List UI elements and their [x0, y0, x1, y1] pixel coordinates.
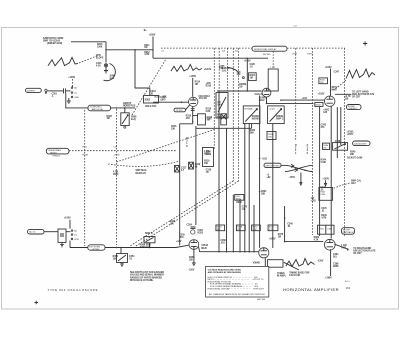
capacitor C316 box — [193, 114, 213, 125]
svg-text:A67 363: A67 363 — [257, 298, 265, 301]
svg-text:1M: 1M — [278, 236, 281, 238]
title horizontal amplifier — [283, 287, 339, 292]
label sweep cal — [222, 68, 231, 73]
svg-text:+PUR: +PUR — [292, 53, 298, 55]
switch EXT HORIZ box — [88, 245, 105, 251]
svg-text:HOLD OFF: HOLD OFF — [145, 106, 157, 108]
switch column dashed 5 — [312, 48, 314, 235]
svg-text:R361: R361 — [319, 228, 325, 230]
svg-text:.0047: .0047 — [160, 99, 166, 102]
resistor box R366 — [216, 225, 225, 231]
footer type 503 — [48, 288, 98, 292]
resistor R311 label — [144, 45, 150, 49]
svg-text:+ABC: +ABC — [323, 108, 330, 111]
svg-text:AND OBTAINED AT MIN READING: AND OBTAINED AT MIN READING — [208, 271, 242, 274]
switch column dashed 3 — [238, 48, 240, 181]
dashed diagonal mag switch right — [136, 181, 239, 246]
C347 label — [334, 70, 340, 73]
top right cross mark — [363, 41, 367, 45]
C364 label — [333, 253, 339, 259]
node -150V mid — [289, 173, 302, 186]
wire +100V lead — [152, 36, 154, 58]
svg-text:15K: 15K — [320, 82, 324, 84]
svg-text:OF CRT: OF CRT — [352, 96, 361, 98]
wire V354 cathode down — [193, 249, 195, 263]
wire cathode bus lower — [199, 247, 259, 252]
svg-text:CAL ADJUST: CAL ADJUST — [354, 142, 367, 145]
revision tag — [345, 280, 350, 283]
adjust note — [347, 157, 363, 160]
potentiometer R324 vernier — [268, 106, 285, 124]
tube V364B amplifier — [259, 248, 269, 258]
svg-text:VALUES AND SERIAL NUMBER: VALUES AND SERIAL NUMBER — [130, 274, 164, 277]
resistor R305B label — [239, 84, 246, 88]
svg-text:ALL READINGS TAKEN WITH NO SIG: ALL READINGS TAKEN WITH NO SIGNAL INPUT … — [209, 293, 266, 296]
svg-text:C347: C347 — [334, 70, 340, 73]
potentiometer R364 vernier — [113, 248, 136, 267]
wire right rail 3 — [336, 107, 338, 158]
svg-text:(DELAY): (DELAY) — [349, 107, 357, 110]
waveform note — [289, 271, 309, 277]
junction dots rail — [259, 158, 261, 160]
note swp cal adj — [333, 179, 362, 188]
svg-text:+162V: +162V — [269, 239, 276, 241]
node +290V — [325, 278, 333, 280]
svg-text:DC: DC — [74, 92, 77, 94]
resistor R336 box — [323, 141, 341, 150]
junction dots row — [105, 49, 107, 51]
svg-text:NOR: NOR — [145, 233, 150, 235]
svg-text:AMPL/XCAL: AMPL/XCAL — [92, 108, 104, 111]
svg-text:R309: R309 — [113, 174, 119, 176]
capacitor C310 label — [96, 63, 102, 68]
resistor box R361 — [318, 225, 334, 234]
label left deflection — [352, 91, 375, 99]
svg-text:+FCW: +FCW — [114, 155, 120, 157]
waveform dotted extension — [79, 56, 97, 63]
label 128 right — [341, 245, 347, 250]
wire grid lead V314 — [192, 78, 194, 97]
svg-text:18K: 18K — [261, 194, 266, 196]
svg-text:+100V: +100V — [322, 178, 329, 180]
label long-tailed — [347, 131, 355, 136]
svg-text:+100V: +100V — [64, 218, 71, 220]
svg-text:GROUP: GROUP — [123, 103, 132, 105]
switch column dashed 1 — [213, 48, 215, 150]
ladder vertical R366 — [218, 91, 220, 252]
svg-text:DC: DC — [74, 235, 77, 237]
node +100V output top — [325, 67, 332, 69]
junction at linkage — [116, 107, 118, 109]
node +100V input — [68, 77, 75, 86]
resistor box R374 — [268, 225, 278, 231]
svg-text:15K: 15K — [171, 128, 176, 130]
R334 vertical label — [295, 145, 297, 155]
svg-text:5.6M: 5.6M — [321, 162, 326, 164]
label swp mag regis leader — [136, 169, 147, 175]
test point TP354 — [187, 223, 204, 234]
label box B-LINE DELAY — [347, 105, 362, 111]
R349 label — [321, 214, 327, 220]
linkage crossing labels — [82, 147, 119, 157]
C345 label — [321, 207, 327, 213]
junction grid wire — [181, 101, 183, 103]
neon B367 — [175, 166, 188, 173]
node sawtooth input label — [43, 37, 63, 45]
svg-text:V354A: V354A — [201, 244, 208, 247]
V343 cathode labels — [323, 108, 330, 114]
resistor R316 label — [171, 126, 177, 131]
capacitor C305 — [219, 66, 244, 79]
wire R374 drop — [272, 206, 274, 248]
svg-text:R368: R368 — [333, 266, 339, 268]
svg-text:-150V: -150V — [289, 177, 296, 179]
switch column dashed 2 — [232, 48, 234, 181]
svg-text:TIMING BASE FOR: TIMING BASE FOR — [289, 271, 309, 274]
resistor R310 label — [97, 44, 103, 48]
ladder vertical 2 — [226, 128, 228, 251]
dashed diagonal hold-off linkage — [132, 59, 166, 115]
svg-text:+100V: +100V — [149, 34, 156, 36]
wire to hold-off network — [135, 50, 150, 96]
svg-text:6-HG-6: 6-HG-6 — [255, 94, 263, 96]
node +162V output grid — [318, 94, 325, 96]
svg-text:47K: 47K — [186, 117, 191, 120]
wire bus to cathode follower — [153, 57, 268, 59]
left rail labels column — [206, 83, 213, 174]
svg-text:R313: R313 — [155, 96, 161, 98]
R305 left label — [107, 116, 113, 120]
svg-text:B+Q: B+Q — [131, 119, 136, 121]
wire V364B cathode ground — [263, 258, 267, 271]
wire V322 output to output grid — [267, 97, 325, 103]
svg-text:27K: 27K — [163, 96, 168, 98]
capacitor pair cluster — [189, 162, 201, 169]
node +100V above V314 — [189, 76, 196, 78]
svg-text:-150V: -150V — [317, 261, 324, 263]
svg-text:4.7M: 4.7M — [321, 217, 326, 220]
svg-text:HORIZONTAL DISPLAY: HORIZONTAL DISPLAY — [208, 287, 231, 290]
tube V314 — [189, 97, 198, 106]
svg-text:68K: 68K — [217, 229, 221, 231]
potentiometer R317 swp cal box — [216, 93, 228, 119]
svg-text:1M: 1M — [195, 84, 198, 86]
resistor R301 — [72, 86, 74, 88]
switch SWEEP MAG box — [46, 148, 69, 157]
svg-text:SWP MAG: SWP MAG — [136, 169, 147, 172]
svg-text:R353: R353 — [198, 232, 204, 234]
svg-text:+162V: +162V — [318, 94, 325, 96]
node +100V lower left — [64, 218, 71, 229]
svg-text:1M: 1M — [250, 78, 253, 80]
wire to left deflection plate — [335, 93, 352, 95]
svg-text:150K: 150K — [97, 47, 103, 49]
wire plate row into V314 — [153, 101, 189, 103]
wire V314 cathode down — [192, 107, 194, 122]
capacitor box C332 — [235, 195, 244, 201]
wire R345 drop — [330, 69, 332, 96]
svg-text:NORMAL: NORMAL — [244, 107, 254, 110]
svg-text:PULL: PULL — [82, 147, 88, 149]
svg-text:+ 290V: + 290V — [325, 278, 333, 280]
wire input top — [71, 41, 106, 43]
svg-text:CAL: CAL — [110, 77, 115, 80]
sawtooth waveform sketch 2 — [171, 64, 202, 71]
ladder vertical 6 — [248, 123, 250, 252]
linkage dashed vertical left — [84, 110, 86, 246]
connector A INPUT — [26, 88, 42, 92]
table footnote number — [257, 298, 265, 301]
label C350 — [179, 234, 185, 239]
wire coupling down — [66, 93, 88, 108]
ground input — [67, 98, 71, 104]
svg-text:(RETRACE): (RETRACE) — [343, 231, 354, 234]
capacitor C304 label — [150, 90, 156, 96]
svg-text:+GATE: +GATE — [204, 68, 212, 71]
svg-text:+100V: +100V — [68, 77, 75, 79]
R318 vertical label — [186, 138, 188, 148]
svg-text:SWP C: SWP C — [276, 119, 284, 121]
ladder vertical 5 — [244, 123, 246, 252]
annotation rect — [268, 260, 299, 270]
svg-text:OF CRT: OF CRT — [353, 253, 362, 255]
resistor R314 label — [195, 81, 201, 86]
svg-text:+162: +162 — [302, 98, 308, 100]
resistor R345 box — [319, 78, 328, 84]
resistor R369 label — [236, 200, 242, 205]
ladder vertical 3 — [232, 195, 234, 252]
svg-text:SW 300: SW 300 — [263, 54, 271, 56]
C310 value label SAW CAL — [110, 75, 116, 81]
svg-text:+POS: +POS — [347, 134, 354, 136]
svg-text:TP 314: TP 314 — [176, 110, 183, 112]
capacitor C310 trimmer — [104, 64, 116, 81]
svg-text:.001: .001 — [179, 237, 184, 239]
C349 label — [321, 123, 327, 128]
svg-text:GND: GND — [74, 97, 79, 99]
svg-text:5.6M: 5.6M — [320, 194, 325, 196]
svg-text:R343: R343 — [316, 104, 322, 106]
svg-text:39K: 39K — [250, 132, 255, 134]
ladder vertical 7 — [253, 205, 255, 252]
dashed diagonal mag switch left — [130, 181, 233, 246]
capacitor C301 — [52, 88, 66, 97]
potentiometer R305 — [121, 108, 129, 128]
svg-text:(SWEEP GEN): (SWEEP GEN) — [47, 43, 62, 45]
capacitor C314 — [191, 109, 195, 111]
resistor R363 label — [314, 237, 320, 242]
switch column dashed 4 — [295, 48, 297, 141]
label right deflection — [353, 247, 376, 255]
waveform sketch bottom — [286, 259, 315, 267]
switch SW300 horizontal display box — [252, 46, 287, 51]
wire pot drops — [227, 124, 273, 206]
linkage dashed vertical mid — [116, 109, 118, 245]
wire V364A cathode down — [330, 249, 332, 276]
node +162 lower tag — [267, 174, 272, 179]
svg-text:A INPUT: A INPUT — [27, 89, 36, 92]
resistor box R372 — [252, 225, 261, 231]
resistor box R368 — [237, 225, 246, 231]
switch linkage dashed bus — [161, 47, 345, 49]
node +100V top — [144, 30, 156, 36]
svg-text:SEE PARTS LIST FOR EARLIER: SEE PARTS LIST FOR EARLIER — [130, 271, 164, 274]
wire lower output grid — [285, 206, 324, 241]
wire right rail 4 — [340, 107, 342, 145]
tube V364A lower output — [324, 239, 335, 250]
ground V354 — [192, 263, 196, 266]
dashed diagonal sweep linkage — [117, 130, 215, 163]
svg-text:.001: .001 — [220, 243, 225, 245]
R344 label — [321, 158, 327, 164]
svg-text:+225 PG TO: +225 PG TO — [252, 279, 264, 281]
waveform slope label — [96, 55, 104, 60]
C318 label — [203, 148, 214, 167]
svg-text:18K: 18K — [268, 137, 272, 139]
ground lower network — [60, 242, 64, 247]
ground for C310 — [104, 67, 108, 73]
wire cathode to left rail — [180, 121, 193, 124]
wire cathode follower plate bus — [217, 90, 261, 92]
connector EXT HORIZ lower — [28, 229, 45, 234]
wire swp cal bottom — [196, 127, 227, 129]
svg-text:C361: C361 — [327, 228, 333, 230]
svg-text:1M: 1M — [239, 86, 242, 88]
V322 type label — [255, 94, 263, 96]
label with mag — [332, 87, 338, 92]
svg-text:TYPE 503 R: TYPE 503 R — [253, 288, 265, 290]
tube V343 upper output — [325, 96, 335, 106]
resistor R316 label — [186, 115, 192, 120]
svg-text:WITH BLUE OUTLINE.: WITH BLUE OUTLINE. — [130, 280, 154, 282]
R321 C320 labels — [249, 64, 257, 80]
node -150V — [188, 269, 195, 271]
svg-text:REGIS 2X: REGIS 2X — [136, 173, 147, 175]
svg-text:+100V: +100V — [189, 76, 196, 78]
svg-text:+ATTEN: +ATTEN — [91, 248, 99, 251]
R356 label — [189, 257, 195, 262]
svg-text:ADJUST GAIN: ADJUST GAIN — [347, 157, 363, 160]
svg-text:-150V: -150V — [188, 269, 195, 271]
label 4.7K gain — [345, 95, 351, 101]
potentiometer R360 swp mag — [140, 233, 155, 249]
svg-text:PUSH: PUSH — [82, 155, 88, 157]
waveform 2 label — [204, 68, 212, 71]
switch SW302 sweep-mag regis box — [88, 105, 111, 111]
svg-text:NOR: NOR — [74, 239, 79, 241]
node +162 decoupled — [262, 158, 268, 160]
switch column dashed 1b — [218, 48, 220, 89]
svg-text:HORIZONTAL AMPLIFIER: HORIZONTAL AMPLIFIER — [283, 287, 339, 292]
waveform sketch top right — [346, 69, 375, 79]
chevron adjust marks — [291, 164, 298, 171]
label box slope retrace — [342, 228, 355, 235]
linkage dashed horizontal — [69, 150, 176, 152]
node +162 rail tag — [261, 191, 267, 196]
footer cross mark — [35, 301, 39, 304]
svg-text:REGIS: REGIS — [50, 152, 57, 154]
svg-text:+162: +162 — [262, 158, 268, 160]
svg-text:39K: 39K — [237, 229, 241, 231]
ladder vertical 8 — [259, 96, 261, 248]
page number 463 — [346, 286, 351, 290]
label box DECOUPLED — [264, 163, 285, 167]
C344 label — [320, 186, 326, 191]
capacitor C370 label — [242, 207, 248, 212]
svg-text:1M: 1M — [144, 47, 147, 49]
svg-text:SLOPE: SLOPE — [96, 58, 104, 60]
wire right rail 2 — [330, 106, 332, 238]
resistor R302 box — [144, 96, 159, 104]
R305 right label — [131, 116, 137, 120]
wire input to coupling — [47, 90, 63, 92]
svg-text:RANGES OF PARTS MARKED: RANGES OF PARTS MARKED — [130, 276, 162, 279]
svg-text:20K: 20K — [350, 154, 355, 156]
wire left rail — [179, 124, 181, 246]
switch contacts lower — [71, 230, 79, 241]
node +100V right mid — [322, 178, 329, 185]
node -150V output — [317, 261, 324, 263]
connector jack circles — [45, 89, 47, 93]
wire bus to V354 — [105, 245, 189, 247]
potentiometer R340 gain — [333, 143, 348, 151]
svg-text:1.8K: 1.8K — [252, 229, 257, 231]
switch SW301 AC DC contacts — [66, 87, 80, 99]
svg-text:-150V: -150V — [206, 118, 213, 120]
top margin tick — [294, 26, 298, 28]
resistor R343 box — [315, 103, 323, 107]
svg-text:CW: CW — [114, 147, 117, 149]
ladder vertical 4 — [239, 200, 241, 251]
label box gain adjust — [353, 141, 370, 146]
R313 label — [155, 96, 168, 98]
svg-text:R302: R302 — [145, 99, 151, 101]
svg-text:V364B: V364B — [253, 262, 260, 265]
svg-text:.001 1M: .001 1M — [198, 98, 206, 100]
wire mid rail — [195, 126, 197, 225]
svg-text:HORIZONTAL DISPLAY: HORIZONTAL DISPLAY — [254, 48, 277, 51]
svg-text:+162: +162 — [311, 201, 317, 203]
svg-text:R319: R319 — [206, 154, 212, 156]
svg-text:1M: 1M — [323, 148, 326, 150]
svg-text:PNG/2X: PNG/2X — [53, 156, 61, 158]
svg-text:BAL: BAL — [218, 104, 223, 107]
node horiz pos label — [123, 103, 136, 108]
node +100V mid bus — [244, 61, 251, 63]
svg-text:R316: R316 — [206, 86, 212, 88]
node +162 on output wire — [302, 98, 308, 100]
capacitor C346 label — [287, 222, 293, 228]
C368 label — [333, 263, 339, 268]
voltage conditions table — [206, 266, 269, 297]
dashed curve swp-mag leader — [108, 161, 180, 166]
resistor R312 label — [144, 52, 150, 56]
svg-text:4.7M: 4.7M — [144, 53, 149, 56]
switch column dashed 1c — [227, 48, 229, 91]
node +12V label — [176, 241, 182, 243]
C336 vertical label — [307, 145, 309, 155]
svg-text:15K: 15K — [204, 163, 209, 165]
resistor R323 label — [250, 130, 256, 135]
switch column dashed 6 — [344, 48, 346, 237]
svg-text:AC DC: AC DC — [29, 231, 36, 234]
note right of table — [277, 273, 287, 278]
svg-text:IN AMPL: IN AMPL — [277, 275, 287, 278]
svg-text:ADJ: ADJ — [351, 182, 356, 185]
svg-text:+C324: +C324 — [269, 108, 276, 110]
potentiometer R322 horiz position — [243, 106, 260, 124]
resistor R346 label — [311, 198, 317, 203]
